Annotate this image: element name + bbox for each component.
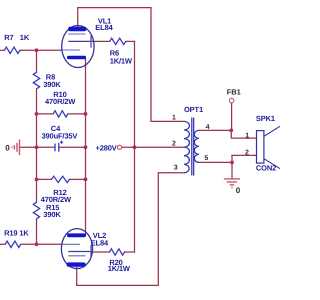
svg-text:0: 0	[5, 144, 10, 153]
svg-text:390uF/35V: 390uF/35V	[42, 132, 78, 141]
svg-text:390K: 390K	[43, 210, 61, 219]
svg-text:+280V: +280V	[96, 143, 117, 152]
svg-text:470R/2W: 470R/2W	[45, 97, 76, 106]
svg-text:R19 1K: R19 1K	[4, 229, 29, 238]
svg-text:EL84: EL84	[95, 23, 113, 32]
svg-text:1: 1	[245, 133, 249, 140]
svg-text:1: 1	[172, 115, 176, 122]
svg-text:3: 3	[174, 164, 178, 171]
svg-text:1K/1W: 1K/1W	[108, 264, 131, 273]
svg-text:0: 0	[236, 186, 241, 195]
svg-text:5: 5	[204, 155, 208, 162]
svg-text:CON2: CON2	[256, 164, 276, 173]
svg-text:OPT1: OPT1	[184, 105, 203, 114]
svg-text:1K: 1K	[20, 33, 30, 42]
svg-text:SPK1: SPK1	[256, 114, 275, 123]
svg-text:1K/1W: 1K/1W	[110, 56, 133, 65]
svg-text:R7: R7	[4, 33, 13, 42]
svg-text:FB1: FB1	[227, 87, 241, 96]
svg-text:2: 2	[172, 140, 176, 147]
svg-text:4: 4	[206, 124, 210, 131]
svg-text:EL84: EL84	[91, 238, 109, 247]
svg-text:390K: 390K	[43, 80, 61, 89]
svg-text:2: 2	[245, 150, 249, 157]
